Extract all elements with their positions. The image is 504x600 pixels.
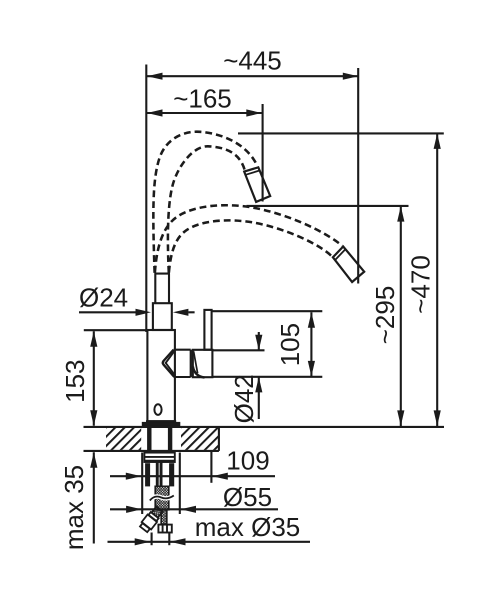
- countertop hatch right block: [181, 428, 219, 450]
- extension line Ø55 right: [179, 453, 181, 515]
- extension line left (faucet edge): [145, 65, 147, 333]
- extension line ~445 right: [357, 68, 359, 284]
- extension line maxØ35 right: [168, 533, 170, 545]
- bracket bar right: [169, 463, 174, 486]
- svg-text:105: 105: [275, 323, 305, 366]
- dimension line 109: [110, 475, 275, 477]
- svg-text:Ø55: Ø55: [223, 482, 272, 512]
- arrow max35 bottom: [90, 452, 97, 468]
- arrow Ø42 bottom: [255, 377, 262, 393]
- arrow 109 right: [212, 473, 228, 480]
- arrow 109 left: [126, 473, 142, 480]
- cone joint chevron outer: [163, 350, 175, 377]
- braided hose section: [155, 486, 169, 510]
- arrow maxØ35 left: [135, 538, 151, 545]
- break squiggle: [150, 496, 174, 501]
- reference line lower spout top (for ~295): [247, 205, 409, 207]
- extension line 109 right: [210, 451, 212, 483]
- leader Ø24 left: [79, 311, 136, 313]
- arrow ~445 left: [147, 73, 163, 80]
- extension line ~165 right: [262, 104, 264, 202]
- reference line 153 top (body step): [84, 329, 148, 331]
- arrow ~445 right: [343, 73, 359, 80]
- logo slot on body: [154, 404, 161, 415]
- reference line top of spout (for ~470): [238, 132, 444, 134]
- arrow ~470 bottom: [434, 410, 441, 426]
- body bottom line: [146, 420, 176, 422]
- bracket bar left: [145, 463, 150, 486]
- svg-text:Ø24: Ø24: [79, 282, 128, 312]
- diagonal hose with fitting: [139, 505, 164, 533]
- dimension line 153: [93, 331, 95, 425]
- reference line 105 top (lever top): [213, 310, 323, 312]
- hose nut vertical: [158, 525, 171, 533]
- svg-text:~165: ~165: [173, 84, 232, 114]
- spout flexible hose upper position: [153, 132, 342, 273]
- arrow Ø24 left: [136, 309, 152, 316]
- mounting washer: [144, 453, 174, 462]
- shank left wall: [147, 427, 151, 452]
- dimension line Ø55: [110, 508, 278, 510]
- hose end tube: [161, 510, 167, 525]
- nozzle lower division line: [335, 249, 345, 260]
- lower position outer dashed curve: [155, 205, 342, 272]
- spout nozzle lower position: [333, 247, 364, 283]
- reference line Ø42 top: [213, 349, 265, 351]
- housing bottom-left curve: [193, 367, 205, 378]
- arrow 153 top: [90, 331, 97, 347]
- upper position inner dashed curve: [168, 146, 245, 273]
- arrow 153 bottom / max35 top: [90, 410, 97, 426]
- nozzle upper division line: [246, 171, 260, 175]
- arrow maxØ35 right: [170, 538, 186, 545]
- extension line Ø55 left: [141, 453, 143, 515]
- cone bottom edge: [174, 376, 190, 378]
- arrow Ø42 top: [255, 335, 262, 351]
- dimension line max Ø35: [108, 541, 311, 543]
- svg-text:~295: ~295: [370, 286, 400, 345]
- lower position inner dashed curve: [169, 220, 332, 272]
- upper position outer dashed curve: [153, 132, 257, 273]
- svg-text:153: 153: [60, 360, 90, 403]
- cone joint chevron inner: [166, 351, 176, 376]
- dimension line ~445: [147, 75, 358, 77]
- leader Ø24 right: [188, 311, 194, 313]
- arrow 105 top: [308, 312, 315, 328]
- arrow Ø55 left: [126, 506, 142, 513]
- reference line 105 bottom (handle bottom): [213, 376, 323, 378]
- spout nozzle upper position: [244, 167, 270, 202]
- lever rod: [204, 310, 211, 350]
- arrow ~470 top: [434, 133, 441, 149]
- arrow 105 bottom: [308, 361, 315, 377]
- faucet body column: [147, 330, 175, 421]
- threaded stud: [156, 461, 159, 487]
- cone top edge: [174, 349, 191, 351]
- dimension line 105: [310, 312, 312, 376]
- housing tapered left facet: [194, 351, 198, 373]
- arrow ~165 right: [246, 109, 261, 116]
- arrow ~295 bottom: [397, 410, 404, 426]
- handle cartridge housing: [193, 350, 213, 377]
- countertop top surface line: [84, 426, 445, 428]
- svg-text:Ø42: Ø42: [229, 374, 259, 423]
- svg-text:max 35: max 35: [59, 465, 89, 550]
- extension line maxØ35 left: [151, 533, 153, 546]
- svg-text:max Ø35: max Ø35: [195, 512, 301, 542]
- tube collar: [153, 303, 172, 330]
- shank right wall: [168, 427, 172, 452]
- arrow ~165 left: [147, 109, 163, 116]
- base plate (escutcheon): [142, 422, 181, 427]
- countertop hatch left block: [106, 428, 141, 450]
- countertop bottom line: [84, 450, 219, 452]
- svg-text:~470: ~470: [406, 255, 436, 314]
- joint ring: [190, 350, 192, 377]
- spout tube: [154, 274, 170, 304]
- countertop right edge: [218, 427, 220, 451]
- arrow Ø55 right: [181, 506, 197, 513]
- svg-text:~445: ~445: [223, 46, 282, 76]
- dimension line ~165: [147, 112, 262, 114]
- dimension line ~295: [400, 206, 402, 426]
- arrow Ø24 right: [173, 309, 189, 316]
- dimension line max 35 lower: [93, 452, 95, 543]
- arrow ~295 top: [397, 206, 404, 222]
- dimension line Ø42: [258, 332, 260, 350]
- dimension line ~470: [436, 133, 438, 426]
- svg-text:109: 109: [226, 445, 269, 475]
